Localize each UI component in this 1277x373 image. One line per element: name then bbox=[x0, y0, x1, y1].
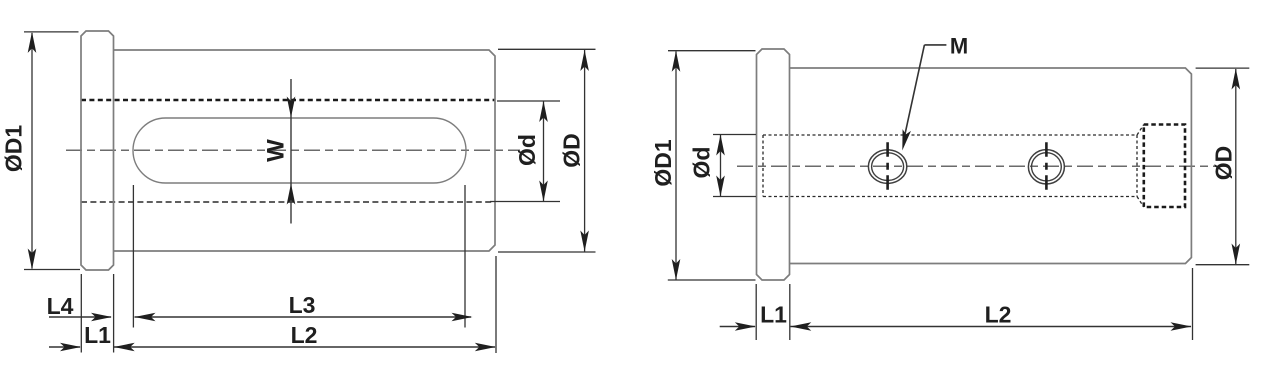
svg-text:W: W bbox=[263, 139, 290, 162]
svg-text:Ød: Ød bbox=[689, 147, 715, 179]
svg-text:L2: L2 bbox=[291, 322, 318, 348]
svg-text:ØD1: ØD1 bbox=[650, 139, 676, 187]
svg-text:M: M bbox=[950, 34, 968, 59]
svg-text:ØD1: ØD1 bbox=[1, 125, 27, 173]
svg-text:L4: L4 bbox=[47, 293, 74, 319]
svg-text:L2: L2 bbox=[985, 302, 1012, 328]
svg-text:ØD: ØD bbox=[1211, 146, 1237, 181]
svg-text:L1: L1 bbox=[84, 322, 111, 348]
svg-text:L1: L1 bbox=[760, 302, 787, 328]
svg-text:Ød: Ød bbox=[514, 134, 540, 166]
svg-text:ØD: ØD bbox=[559, 133, 585, 168]
svg-text:L3: L3 bbox=[289, 292, 316, 318]
